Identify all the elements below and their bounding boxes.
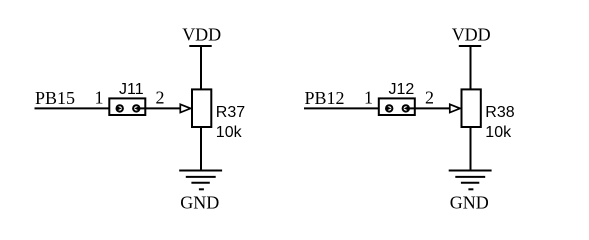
open arrow into R37 [180, 104, 190, 112]
ground symbol (R37 branch) [179, 171, 222, 190]
J12 pin 2 pad [403, 105, 409, 111]
svg-text:VDD: VDD [452, 25, 491, 45]
svg-text:10k: 10k [485, 124, 512, 141]
power symbol VDD (R37 branch) [182, 25, 221, 46]
resistor R38 [462, 89, 481, 127]
wire VDD rail to R37 top [200, 46, 202, 90]
svg-text:2: 2 [425, 88, 434, 108]
svg-text:R37: R37 [216, 104, 245, 121]
J11 pin 2 pad [133, 105, 139, 111]
J12 pin 1 pad [386, 105, 392, 111]
resistor R37 [192, 89, 211, 127]
jumper J11 body [109, 98, 145, 115]
svg-text:PB12: PB12 [305, 88, 345, 108]
jumper J12 body [379, 98, 415, 115]
svg-text:J12: J12 [389, 81, 415, 98]
wire J11 pin 2 to R37 [140, 107, 181, 109]
svg-text:2: 2 [156, 88, 165, 108]
open arrow into R38 [450, 104, 460, 112]
svg-text:PB15: PB15 [35, 88, 75, 108]
wire PB12 to J12 pin 1 [304, 107, 387, 109]
J11 pin 1 pad [117, 105, 123, 111]
power symbol VDD (R38 branch) [452, 25, 491, 46]
svg-text:R38: R38 [485, 104, 514, 121]
wire R37 bottom to ground [200, 127, 202, 170]
svg-text:1: 1 [364, 88, 373, 108]
wire VDD rail to R38 top [470, 46, 472, 90]
ground symbol (R38 branch) [449, 171, 492, 190]
wire PB15 to J11 pin 1 [35, 107, 118, 109]
wire R38 bottom to ground [470, 127, 472, 170]
svg-text:GND: GND [180, 192, 219, 212]
svg-text:J11: J11 [119, 81, 144, 98]
svg-text:1: 1 [95, 88, 104, 108]
wire J12 pin 2 to R38 [409, 107, 450, 109]
svg-text:10k: 10k [216, 124, 243, 141]
svg-text:VDD: VDD [182, 25, 221, 45]
svg-text:GND: GND [450, 192, 489, 212]
